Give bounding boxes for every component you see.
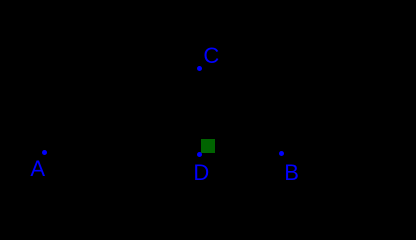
label C	[203, 45, 219, 67]
point B	[279, 151, 284, 156]
point D	[197, 152, 202, 157]
segment AC	[44, 68, 199, 152]
label A	[30, 158, 45, 180]
segment CD (altitude)	[198, 68, 200, 154]
right-angle marker at D	[201, 139, 215, 153]
label D	[193, 162, 209, 184]
point C	[197, 66, 202, 71]
segment BC	[199, 68, 281, 153]
point A	[42, 150, 47, 155]
label B	[284, 162, 299, 184]
